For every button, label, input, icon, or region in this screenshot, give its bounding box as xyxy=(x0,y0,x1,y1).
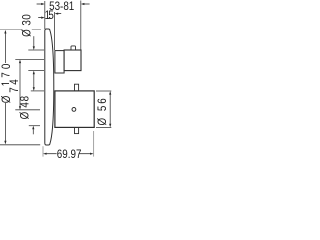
extension line: Ø48 bottom xyxy=(29,125,40,127)
extension line: lower knob top (Ø48) xyxy=(31,90,44,92)
svg-text:Ø 30: Ø 30 xyxy=(21,14,34,37)
dim 15 arrows xyxy=(38,13,61,19)
extension line: upper knob centerline xyxy=(15,59,44,61)
svg-text:53-81: 53-81 xyxy=(49,0,74,13)
extension line: 69-97 right (gray) xyxy=(93,131,95,157)
lower knob top tab xyxy=(75,84,79,91)
extension line: lower knob bottom right xyxy=(96,126,111,128)
extension line: upper knob top tangent xyxy=(28,49,44,51)
extension line: lower knob centerline xyxy=(15,109,40,111)
safety button on knob xyxy=(71,46,76,50)
extension line: wall/plate back above xyxy=(44,1,46,29)
svg-text:Ø 48: Ø 48 xyxy=(19,95,32,119)
dim 53-81 arrows xyxy=(37,3,90,5)
dim Ø170 line xyxy=(4,33,6,141)
svg-text:Ø 56: Ø 56 xyxy=(96,96,109,125)
extension line: upper knob bottom tangent xyxy=(28,70,44,72)
lower knob (volume handle) xyxy=(55,91,94,128)
background xyxy=(0,0,116,160)
extension line: 69-97 left (gray) xyxy=(42,146,44,156)
extension line: handle front (81 dim) xyxy=(80,1,82,51)
extension line: lower knob top right xyxy=(96,90,111,92)
extension line: plate top tangent (gray) xyxy=(0,28,41,30)
extension line: plate bottom tangent xyxy=(0,144,40,146)
screw hole on lower knob xyxy=(72,108,76,112)
dim Ø30 stack line and arrows xyxy=(33,36,35,47)
svg-text:69.97: 69.97 xyxy=(57,148,82,160)
dim 69.97 line and arrows xyxy=(43,153,94,155)
lower knob bottom tab xyxy=(75,127,79,133)
escutcheon plate side profile xyxy=(45,29,54,145)
upper knob (thermostat handle) xyxy=(64,50,81,71)
upper knob adapter sleeve xyxy=(55,51,64,73)
dim 74 line and arrows xyxy=(19,63,21,107)
extension line: plate front (15 dim) xyxy=(54,12,56,50)
svg-text:74: 74 xyxy=(8,77,21,93)
dim Ø56 line and arrows xyxy=(109,94,111,124)
